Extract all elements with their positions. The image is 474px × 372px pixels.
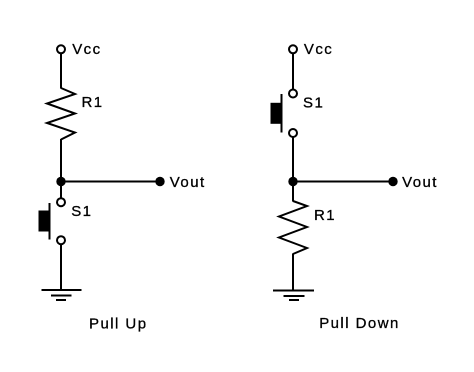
svg-text:Pull Up: Pull Up	[89, 315, 148, 332]
svg-text:S1: S1	[71, 203, 92, 220]
svg-text:Vout: Vout	[170, 174, 206, 191]
svg-text:Vcc: Vcc	[304, 41, 333, 58]
svg-text:Pull Down: Pull Down	[319, 315, 400, 332]
svg-text:R1: R1	[314, 207, 336, 224]
svg-text:S1: S1	[303, 95, 324, 112]
svg-text:Vcc: Vcc	[72, 41, 101, 58]
svg-text:R1: R1	[82, 94, 104, 111]
svg-text:Vout: Vout	[402, 174, 438, 191]
